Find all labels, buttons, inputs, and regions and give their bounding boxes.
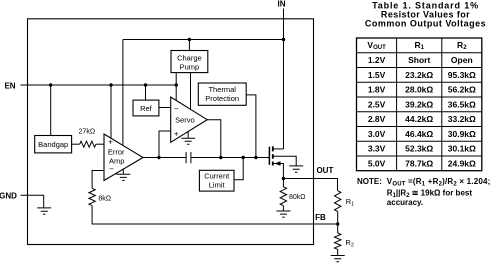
wire current limit output	[234, 158, 243, 180]
resistor 80k	[280, 187, 286, 206]
wire servo output	[207, 120, 221, 158]
svg-text:R1: R1	[414, 40, 424, 51]
svg-text:5.0V: 5.0V	[368, 158, 386, 168]
svg-text:95.3kΩ: 95.3kΩ	[448, 70, 476, 80]
ground R2	[331, 249, 345, 261]
wire 27k to error amp + input	[96, 143, 104, 145]
wire bandgap enable drop	[50, 85, 52, 136]
note text	[357, 177, 491, 207]
svg-text:IN: IN	[278, 0, 286, 8]
svg-text:80kΩ: 80kΩ	[289, 194, 306, 201]
svg-text:1.2V: 1.2V	[368, 55, 386, 65]
op-amp U1 Error Amp	[104, 134, 143, 181]
svg-text:30.9kΩ: 30.9kΩ	[448, 129, 476, 139]
svg-text:R2: R2	[345, 238, 353, 249]
node current limit junction	[242, 156, 245, 159]
svg-text:Open: Open	[451, 55, 473, 65]
svg-text:24.9kΩ: 24.9kΩ	[448, 158, 476, 168]
resistor R1	[335, 191, 341, 212]
wire thermal protection output	[246, 95, 256, 158]
svg-text:Charge: Charge	[177, 53, 202, 62]
wire 8k to FB rail	[92, 206, 338, 224]
pin label EN	[4, 81, 15, 90]
svg-text:Servo: Servo	[175, 115, 195, 124]
IC outline box	[28, 19, 314, 245]
svg-text:39.2kΩ: 39.2kΩ	[405, 99, 433, 109]
value label 8kOhm	[98, 196, 111, 203]
node EN to ref junction	[144, 83, 147, 86]
table row 3.0V	[368, 129, 476, 139]
value label 80kOhm	[289, 194, 306, 201]
svg-text:52.3kΩ: 52.3kΩ	[405, 144, 433, 154]
block U3 Charge Pump	[171, 51, 208, 73]
table row 1.2V	[368, 55, 473, 65]
value label 27kOhm	[79, 129, 96, 136]
resistor 8k	[89, 188, 95, 205]
svg-text:−: −	[109, 164, 114, 173]
svg-text:Protection: Protection	[205, 94, 239, 103]
svg-text:3.0V: 3.0V	[368, 129, 386, 139]
pin label FB	[315, 213, 326, 222]
node charge pump top junction	[188, 38, 191, 41]
wire ref to servo - input	[159, 107, 171, 109]
svg-text:23.2kΩ: 23.2kΩ	[405, 70, 433, 80]
svg-text:VOUT =(R1 +R2)/R2 × 1.204;: VOUT =(R1 +R2)/R2 × 1.204;	[387, 177, 491, 187]
svg-text:2.5V: 2.5V	[368, 99, 386, 109]
wire servo + tap from gate rail	[159, 131, 171, 158]
ground error amp	[116, 169, 130, 181]
wire error amp - input	[92, 171, 104, 189]
svg-text:33.2kΩ: 33.2kΩ	[448, 114, 476, 124]
svg-text:1.5V: 1.5V	[368, 70, 386, 80]
svg-text:−: −	[174, 104, 179, 113]
capacitor C1	[186, 152, 191, 163]
svg-text:+: +	[108, 138, 113, 147]
svg-text:+: +	[174, 129, 179, 138]
pin label IN	[278, 0, 286, 8]
wire 80k top stub	[282, 179, 284, 187]
transistor Q1 drain link	[274, 148, 284, 150]
wire GND lead	[21, 195, 44, 207]
resistor R2	[335, 233, 341, 249]
transistor Q1 body link	[274, 156, 297, 166]
transistor Q1 source link with arrow	[274, 161, 284, 178]
wire R1 bottom to FB node	[337, 212, 339, 225]
svg-text:46.4kΩ: 46.4kΩ	[405, 129, 433, 139]
svg-text:56.2kΩ: 56.2kΩ	[448, 85, 476, 95]
svg-text:Limit: Limit	[209, 181, 226, 190]
pin label OUT	[316, 166, 333, 175]
svg-text:28.0kΩ: 28.0kΩ	[405, 85, 433, 95]
table header row	[367, 40, 467, 51]
node EN to charge pump junction	[175, 83, 178, 86]
wire R2 top	[337, 224, 339, 233]
svg-text:R2: R2	[457, 40, 467, 51]
wire error-amp supply drop	[122, 40, 124, 146]
wire OUT rail	[283, 179, 337, 191]
svg-text:36.5kΩ: 36.5kΩ	[448, 99, 476, 109]
wire IN lead vertical	[283, 9, 285, 149]
value label R1	[346, 197, 354, 208]
wire error amp enable drop	[110, 85, 112, 138]
wire EN rail	[21, 84, 177, 86]
svg-text:R1: R1	[346, 197, 354, 208]
table title	[365, 1, 486, 29]
ground GND pin	[37, 208, 51, 214]
svg-text:30.1kΩ: 30.1kΩ	[448, 144, 476, 154]
node IN junction on top rail	[282, 38, 285, 41]
svg-text:44.2kΩ: 44.2kΩ	[405, 114, 433, 124]
svg-text:2.8V: 2.8V	[368, 114, 386, 124]
node FB junction	[336, 222, 339, 225]
svg-text:VOUT: VOUT	[367, 40, 386, 51]
svg-text:3.3V: 3.3V	[368, 144, 386, 154]
ground 80k	[276, 206, 290, 217]
wire charge pump top stub	[188, 40, 190, 51]
svg-text:Common Output Voltages: Common Output Voltages	[365, 18, 486, 28]
table row 2.8V	[368, 114, 476, 124]
svg-text:Ref: Ref	[140, 104, 153, 113]
table row 1.5V	[368, 70, 476, 80]
wire gate rail cap to MOSFET gate	[191, 157, 270, 159]
block U5 Thermal Protection	[198, 83, 246, 105]
svg-text:Error: Error	[108, 147, 125, 156]
svg-text:NOTE:: NOTE:	[357, 177, 382, 186]
wire charge pump output B to servo	[190, 73, 192, 110]
node servo output junction	[219, 156, 222, 159]
svg-text:Thermal: Thermal	[208, 85, 236, 94]
svg-text:GND: GND	[0, 192, 17, 201]
ground servo	[181, 132, 195, 145]
svg-text:Current: Current	[204, 172, 230, 181]
block U4 Ref	[133, 100, 159, 116]
value label R2	[345, 238, 353, 249]
svg-text:27kΩ: 27kΩ	[79, 129, 96, 136]
svg-text:Bandgap: Bandgap	[38, 140, 68, 149]
svg-text:OUT: OUT	[316, 166, 333, 175]
wire error amp output to cap	[143, 157, 186, 159]
ground MOSFET body	[289, 166, 303, 172]
block U2 Bandgap	[35, 136, 72, 153]
wire bandgap output to 27k	[72, 143, 80, 145]
node EN to error amp junction	[109, 83, 112, 86]
wire top supply rail	[123, 39, 284, 41]
wire ref enable drop	[145, 85, 147, 100]
svg-text:accuracy.: accuracy.	[387, 198, 423, 207]
svg-text:1.8V: 1.8V	[368, 85, 386, 95]
svg-text:Short: Short	[408, 55, 430, 65]
svg-text:Pump: Pump	[180, 63, 200, 72]
node thermal junction	[254, 156, 257, 159]
wire charge pump output A to servo	[175, 73, 177, 101]
table row 3.3V	[368, 144, 476, 154]
pin label GND	[0, 192, 17, 201]
resistor 27k	[80, 141, 96, 147]
block U6 Current Limit	[199, 170, 234, 191]
node OUT junction	[282, 177, 285, 180]
transistor Q1 channel segments	[272, 146, 274, 165]
node servo + junction	[157, 156, 160, 159]
svg-text:78.7kΩ: 78.7kΩ	[405, 158, 433, 168]
table row 1.8V	[368, 85, 476, 95]
svg-text:8kΩ: 8kΩ	[98, 196, 111, 203]
svg-text:EN: EN	[4, 81, 15, 90]
node EN to bandgap junction	[49, 83, 52, 86]
op-amp U7 Servo	[171, 97, 208, 142]
table row 5.0V	[368, 158, 476, 168]
transistor Q1 gate bar	[268, 147, 270, 165]
svg-text:FB: FB	[315, 213, 326, 222]
table row 2.5V	[368, 99, 476, 109]
table grid	[357, 38, 482, 171]
